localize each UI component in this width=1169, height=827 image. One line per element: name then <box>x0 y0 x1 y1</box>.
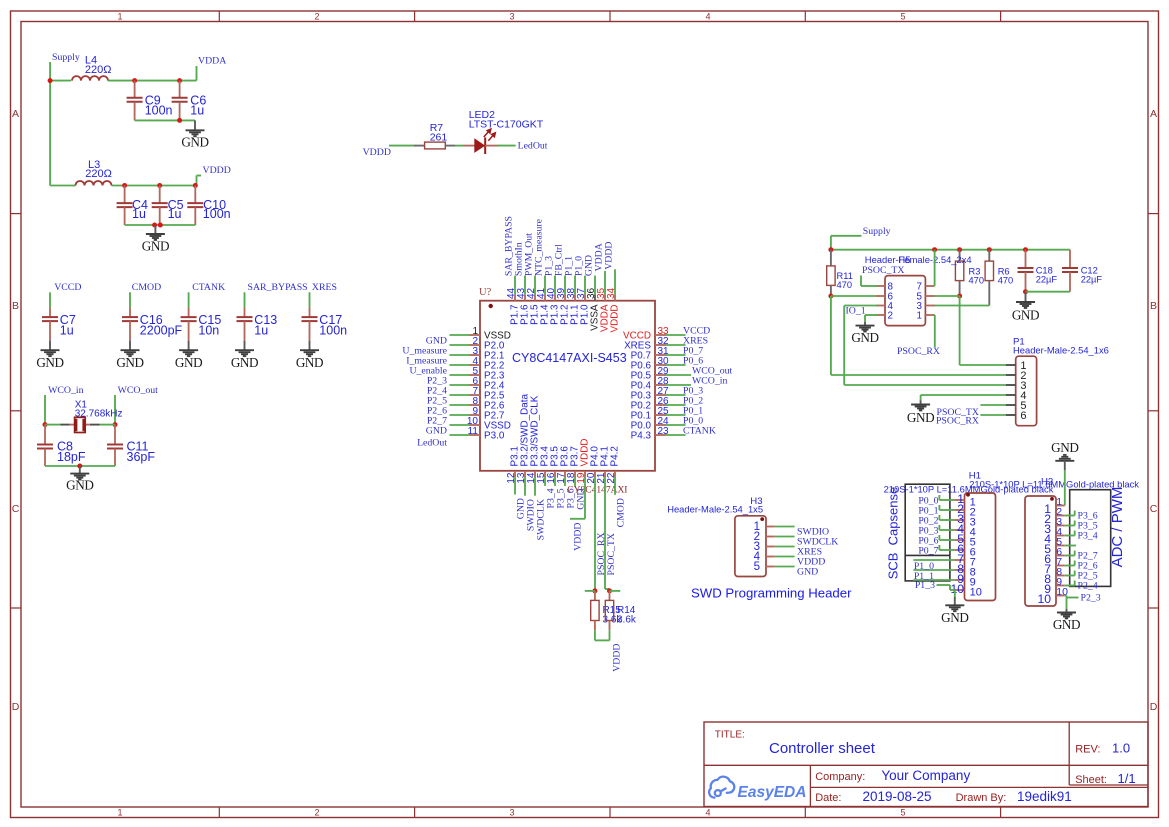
inductor L4 <box>72 76 108 80</box>
ground below H1 <box>954 597 956 605</box>
wire supply bus <box>831 249 1070 251</box>
wire XRES <box>309 292 311 307</box>
svg-text:B: B <box>12 300 19 312</box>
pin 41 (P1.4) top <box>544 295 546 301</box>
junction bottom left <box>152 223 157 228</box>
wire pin 12 <box>514 477 516 495</box>
wire pin 6 <box>450 384 470 386</box>
pin 6 H4 <box>1056 555 1065 557</box>
capacitor C9 <box>134 81 136 98</box>
capacitor C12 <box>1069 250 1071 268</box>
svg-text:Header-Male-2.54_1x6: Header-Male-2.54_1x6 <box>1013 344 1109 355</box>
ground below C5 <box>154 225 156 234</box>
pin 26 (P0.2) right <box>655 404 666 406</box>
wire P1 pin6 <box>980 414 1006 416</box>
pin 38 (P1.1) top <box>574 295 576 301</box>
pin 3 H5 right <box>925 305 934 307</box>
wire pin 19 VDDD <box>584 477 586 519</box>
pin 5 P1 <box>1006 404 1016 406</box>
svg-text:5: 5 <box>754 561 760 573</box>
junction C4 top <box>122 183 127 188</box>
wire VDDD to R7 <box>389 145 414 147</box>
wire pin 11 <box>450 434 470 436</box>
wire H1 pin 2 <box>939 509 954 511</box>
U? pin1 marker <box>489 304 493 308</box>
wire pin 34 <box>614 269 616 294</box>
header H4 body <box>1025 496 1056 606</box>
svg-text:2: 2 <box>888 310 893 321</box>
pin 4 H5 left <box>876 305 885 307</box>
pin 39 (P1.2) top <box>564 295 566 301</box>
svg-text:GND: GND <box>66 478 93 493</box>
svg-text:Controller sheet: Controller sheet <box>769 740 876 757</box>
wire pin 20 PSOC_RX <box>594 477 596 591</box>
header P1 body <box>1016 356 1037 426</box>
wire R11 to P1 pin2 <box>830 296 832 375</box>
wire H4 pin 10 <box>1065 595 1067 597</box>
svg-text:VDDD: VDDD <box>573 523 584 551</box>
junction X1 right <box>113 422 118 427</box>
wire pin 40 <box>554 276 556 295</box>
wire pin 35 <box>604 271 606 295</box>
junction bottom <box>77 464 82 469</box>
junction C6 bottom <box>177 118 182 123</box>
svg-text:VCCD: VCCD <box>54 282 81 293</box>
svg-text:REV:: REV: <box>1075 744 1100 756</box>
wire X1 right <box>100 424 116 426</box>
wire pin 26 <box>666 404 686 406</box>
junction R3 bottom <box>957 294 962 299</box>
svg-text:LedOut: LedOut <box>518 141 548 152</box>
pin 4 (P2.2) left <box>469 364 480 366</box>
junction R11 bottom <box>828 294 833 299</box>
ground below C6 <box>194 120 196 130</box>
svg-text:5: 5 <box>900 12 905 22</box>
svg-text:3: 3 <box>509 12 514 22</box>
wire H3 pin 4 <box>775 556 795 558</box>
wire pin 5 <box>450 374 470 376</box>
svg-text:1u: 1u <box>190 104 204 118</box>
svg-text:220Ω: 220Ω <box>85 168 112 180</box>
wire pin 17 <box>564 477 566 486</box>
wire pin 44 <box>514 276 516 295</box>
svg-text:TITLE:: TITLE: <box>715 730 745 741</box>
capacitor C13 <box>244 307 246 316</box>
wire LED2 to LedOut <box>498 145 516 147</box>
H1 pin1 marker <box>966 493 970 497</box>
pin 6 H1 <box>954 549 964 551</box>
capacitor C4 <box>124 186 126 203</box>
pin 5 H1 <box>954 539 964 541</box>
wire H4 pin 9 <box>1065 585 1075 587</box>
svg-text:GND: GND <box>426 426 447 437</box>
svg-text:P2_3: P2_3 <box>1081 593 1101 604</box>
pin 3 H3 <box>766 546 775 548</box>
ground below C13 <box>244 341 246 351</box>
svg-text:Header-Female-2.54_2x4: Header-Female-2.54_2x4 <box>865 254 972 265</box>
wire pin 22 <box>614 477 616 495</box>
pin 3 (P2.1) left <box>469 354 480 356</box>
wire X1 left <box>45 424 61 426</box>
wire VCCD <box>49 292 51 307</box>
wire pin 33 <box>666 334 686 336</box>
svg-text:WCO_out: WCO_out <box>118 385 159 396</box>
pin 4 H4 <box>1056 535 1065 537</box>
svg-text:GND: GND <box>1053 617 1080 632</box>
wire C18-C12 bottom <box>1026 291 1071 293</box>
pin 4 P1 <box>1006 394 1016 396</box>
pin 4 H3 <box>766 556 775 558</box>
svg-text:Sheet:: Sheet: <box>1075 774 1107 786</box>
pin 2 H3 <box>766 536 775 538</box>
wire WCO_out <box>114 395 116 425</box>
svg-text:CTANK: CTANK <box>683 426 716 437</box>
wire L4 to VDDA <box>108 80 197 82</box>
wire H4 pin 5 <box>1065 545 1076 547</box>
pin 1 H1 <box>954 499 964 501</box>
pin 1 P1 <box>1006 364 1016 366</box>
ground below X1 <box>79 466 81 474</box>
capacitor C8 <box>44 425 46 445</box>
pin 6 P1 <box>1006 414 1016 416</box>
pin 40 (P1.3) top <box>554 295 556 301</box>
wire Supply to L3 <box>50 185 75 187</box>
box ADC/PWM <box>1070 490 1111 587</box>
wire H1 pin 3 <box>939 519 954 521</box>
junction bus R11 <box>828 247 833 252</box>
svg-text:P3.0: P3.0 <box>484 431 505 442</box>
ground P1 pin4 <box>920 401 922 405</box>
wire CMOD <box>129 292 131 307</box>
wire pin 7 <box>450 394 470 396</box>
svg-text:CTANK: CTANK <box>192 282 225 293</box>
wire WCO_in <box>44 395 46 425</box>
svg-text:Date:: Date: <box>815 792 841 804</box>
pin 10 H4 <box>1056 595 1065 597</box>
wire R6 to H5 pin3 <box>933 305 989 307</box>
crystal X1 <box>61 424 70 426</box>
wire pin 14 <box>534 477 536 496</box>
wire R7 to LED2 <box>455 145 463 147</box>
wire pin 31 <box>666 354 686 356</box>
pin 9 H4 <box>1056 585 1065 587</box>
svg-text:1: 1 <box>117 12 122 22</box>
svg-text:22µF: 22µF <box>1036 275 1058 285</box>
svg-text:D: D <box>12 701 20 713</box>
pin 28 (P0.4) right <box>655 384 666 386</box>
svg-text:Drawn By:: Drawn By: <box>956 792 1007 804</box>
svg-text:2: 2 <box>314 808 319 818</box>
svg-text:B: B <box>1150 300 1157 312</box>
svg-text:1.0: 1.0 <box>1112 741 1130 756</box>
junction bus C18 <box>1023 247 1028 252</box>
pin 5 H4 <box>1056 545 1065 547</box>
wire H4 pin 4 <box>1065 535 1075 537</box>
pin 25 (P0.1) right <box>655 414 666 416</box>
wire H3 pin 3 <box>775 546 795 548</box>
pin 9 (P2.7) left <box>469 414 480 416</box>
wire pin 42 <box>534 276 536 295</box>
pin 7 (P2.5) left <box>469 394 480 396</box>
svg-text:EasyEDA: EasyEDA <box>738 784 807 801</box>
svg-text:1u: 1u <box>60 324 74 338</box>
resistor R6 <box>988 250 990 261</box>
junction bottom right <box>158 223 163 228</box>
svg-text:32.768kHz: 32.768kHz <box>75 409 123 420</box>
pin 7 H1 <box>954 559 964 561</box>
pin 2 (P2.0) left <box>469 344 480 346</box>
wire H1 pin10 to GND <box>954 590 956 597</box>
wire pin 32 <box>666 344 686 346</box>
svg-text:P0_7: P0_7 <box>918 545 938 556</box>
ground below C17 <box>309 341 311 351</box>
wire CTANK <box>188 292 190 307</box>
svg-text:P1_3: P1_3 <box>915 580 935 591</box>
wire VDDD stub up <box>196 176 198 186</box>
junction R15 top <box>592 588 597 593</box>
svg-text:P2_4: P2_4 <box>1078 581 1098 592</box>
capacitor C5 <box>159 186 161 203</box>
svg-text:100n: 100n <box>319 324 347 338</box>
capacitor C16 <box>129 307 131 316</box>
pin 1 H5 right <box>925 314 934 316</box>
svg-text:220Ω: 220Ω <box>85 64 112 76</box>
ground below C18 <box>1025 292 1027 302</box>
wire pin 27 <box>666 394 686 396</box>
pin 8 H5 left <box>876 285 885 287</box>
svg-text:36pF: 36pF <box>127 450 156 464</box>
svg-text:10: 10 <box>950 582 964 596</box>
resistor R7 <box>414 145 425 147</box>
pin 1 H4 <box>1056 505 1065 507</box>
pin 16 (P3.5) bottom <box>554 471 556 477</box>
wire H4 pin 6 <box>1065 555 1075 557</box>
svg-text:P4.3: P4.3 <box>631 431 652 442</box>
wire pin 4 <box>450 364 470 366</box>
wire Supply to L4 <box>50 80 71 82</box>
inductor L3 <box>76 181 112 186</box>
wire pin 8 <box>450 404 470 406</box>
wire pin 3 <box>450 354 470 356</box>
header H1 body <box>965 493 996 601</box>
wire R15-R14 bottom U <box>594 630 596 640</box>
pin 30 (P0.6) right <box>655 364 666 366</box>
junction C18 bottom <box>1023 289 1028 294</box>
svg-text:A: A <box>12 108 19 120</box>
svg-text:VDDD: VDDD <box>363 147 391 158</box>
pin 24 (P0.0) right <box>655 424 666 426</box>
pin 1 H3 <box>766 526 775 528</box>
wire C8-C11 bottom <box>45 465 115 467</box>
pin 8 H4 <box>1056 575 1065 577</box>
svg-text:4: 4 <box>705 808 710 818</box>
svg-text:P4.2: P4.2 <box>610 446 621 466</box>
svg-text:VDDD: VDDD <box>604 241 615 269</box>
pin 2 H4 <box>1056 515 1065 517</box>
wire H4 pin 7 <box>1065 565 1075 567</box>
svg-text:CMOD: CMOD <box>132 282 161 293</box>
junction C5 top <box>157 183 162 188</box>
header H5 body <box>885 276 925 326</box>
wire pin 30 <box>666 364 686 366</box>
pin 2 H5 left <box>876 314 885 316</box>
pin 1 (VSSD) left <box>469 334 480 336</box>
H3 pin1 marker <box>760 517 764 521</box>
pin 44 (P1.7) top <box>514 295 516 301</box>
wire pin 43 <box>524 276 526 295</box>
wire pin 39 <box>564 276 566 295</box>
wire H5 pin2 to GND <box>865 314 877 316</box>
pin 5 H3 <box>766 566 775 568</box>
pin 10 H1 <box>954 589 964 591</box>
wire pin 16 <box>554 477 556 486</box>
pin 19 (VDDD) bottom <box>584 471 586 477</box>
wire pin 2 <box>450 344 470 346</box>
wire pin 36 <box>594 276 596 295</box>
junction bus pin7 <box>932 247 937 252</box>
EasyEDA logo <box>709 777 734 798</box>
wire Supply right <box>831 235 862 237</box>
svg-text:470: 470 <box>837 280 853 290</box>
wire H1 pin 1 <box>939 499 954 501</box>
wire VDDA stub up <box>196 66 198 81</box>
wire H1 pin 10 <box>937 584 951 586</box>
ground below C15 <box>188 341 190 351</box>
box SCB/Capsense <box>905 484 950 581</box>
wire pin 10 <box>450 424 470 426</box>
wire pin 37 <box>584 276 586 295</box>
svg-text:GND: GND <box>175 355 202 370</box>
pin 13 (P3.2/SWD_Data) bottom <box>524 471 526 477</box>
svg-text:GND: GND <box>907 410 934 425</box>
wire pin 13 <box>524 477 526 496</box>
svg-text:2200pF: 2200pF <box>140 324 183 338</box>
pin 12 (P3.1) bottom <box>514 471 516 477</box>
pin 8 H1 <box>954 569 964 571</box>
capacitor C6 <box>179 81 181 98</box>
ground below C7 <box>49 341 51 351</box>
svg-text:Your Company: Your Company <box>881 768 970 783</box>
wire R3 to H5 pin5 <box>933 295 959 297</box>
pin 35 (VDDA) top <box>604 295 606 301</box>
svg-text:4: 4 <box>705 12 710 22</box>
svg-text:LedOut: LedOut <box>417 438 447 449</box>
wire pin 15 <box>544 477 546 486</box>
pin 33 (VCCD) right <box>655 334 666 336</box>
pin 21 (P4.1) bottom <box>604 471 606 477</box>
junction bus R3 <box>957 247 962 252</box>
svg-text:LTST-C170GKT: LTST-C170GKT <box>469 119 544 131</box>
wire SAR_BYPASS <box>244 292 246 307</box>
junction X1 left <box>43 422 48 427</box>
svg-text:GND: GND <box>1051 440 1078 455</box>
pin 7 H5 right <box>925 285 934 287</box>
svg-text:CMOD: CMOD <box>616 498 627 527</box>
svg-text:22µF: 22µF <box>1081 275 1103 285</box>
svg-text:IO_1: IO_1 <box>846 306 866 317</box>
svg-text:10n: 10n <box>198 324 219 338</box>
svg-text:1/1: 1/1 <box>1118 771 1136 786</box>
svg-text:GND: GND <box>1012 308 1039 323</box>
wire H5 pin4 IO_1 <box>844 305 877 307</box>
title block frame <box>704 722 1148 807</box>
resistor R3 <box>959 250 961 261</box>
svg-text:1u: 1u <box>132 207 146 221</box>
ground below C16 <box>129 341 131 351</box>
pin 10 (VSSD) left <box>469 424 480 426</box>
pin 9 H1 <box>954 579 964 581</box>
wire pin 21 PSOC_TX <box>604 477 606 589</box>
svg-text:6: 6 <box>1020 410 1026 422</box>
LED LED2 <box>463 145 475 147</box>
H4 pin1 marker <box>1050 497 1054 501</box>
wire H1 pin 6 <box>939 549 954 551</box>
svg-text:3.6k: 3.6k <box>617 615 637 626</box>
wire H1 pin 9 <box>913 579 954 581</box>
pin 29 (P0.5) right <box>655 374 666 376</box>
wire H1 pin 7 <box>913 559 954 561</box>
svg-text:1u: 1u <box>254 324 268 338</box>
pin 31 (P0.7) right <box>655 354 666 356</box>
pin 18 (P3.7) bottom <box>574 471 576 477</box>
capacitor C15 <box>188 307 190 316</box>
svg-text:GND: GND <box>36 355 63 370</box>
capacitor C18 <box>1025 250 1027 268</box>
svg-text:VDDD: VDDD <box>203 165 231 176</box>
junction C10 top <box>193 183 198 188</box>
svg-text:Header-Male-2.54_1x5: Header-Male-2.54_1x5 <box>667 504 763 515</box>
svg-text:10: 10 <box>1037 592 1051 606</box>
pin 34 (VDDD) top <box>614 295 616 301</box>
wire pin 9 <box>450 414 470 416</box>
resistor R15 <box>594 591 596 601</box>
wire pin 29 <box>666 374 691 376</box>
svg-text:XRES: XRES <box>312 282 337 293</box>
header H3 body <box>735 516 766 577</box>
svg-text:PSOC_TX: PSOC_TX <box>862 265 904 276</box>
wire GND to H4 pin1 <box>1064 470 1066 505</box>
wire H3 pin 1 <box>775 526 795 528</box>
pin 27 (P0.3) right <box>655 394 666 396</box>
pin 3 H4 <box>1056 525 1065 527</box>
wire pin 1 <box>450 334 470 336</box>
svg-text:1u: 1u <box>168 207 182 221</box>
svg-text:470: 470 <box>969 275 985 285</box>
pin 15 (P3.4) bottom <box>544 471 546 477</box>
wire P1 pin5 <box>980 404 1006 406</box>
wire H4 pin 8 <box>1065 575 1075 577</box>
capacitor C17 <box>309 307 311 316</box>
wire H1 pin 4 <box>939 529 954 531</box>
svg-text:VDDD: VDDD <box>612 644 623 672</box>
svg-text:U?: U? <box>479 287 492 298</box>
pin 22 (P4.2) bottom <box>614 471 616 477</box>
pin 2 H1 <box>954 509 964 511</box>
wire pin 25 <box>666 414 686 416</box>
svg-text:VDDD: VDDD <box>610 305 621 333</box>
wire P1 pin4 to GND <box>921 394 1006 396</box>
pin 11 (P3.0) left <box>469 434 480 436</box>
svg-text:1: 1 <box>917 310 922 321</box>
svg-text:ADC / PWM: ADC / PWM <box>1109 487 1126 568</box>
pin 23 (P4.3) right <box>655 434 666 436</box>
svg-text:GND: GND <box>851 330 878 345</box>
pin 8 (P2.6) left <box>469 404 480 406</box>
svg-text:GND: GND <box>941 610 968 625</box>
ground H5 pin2 <box>864 322 866 326</box>
svg-text:100n: 100n <box>145 104 173 118</box>
svg-text:261: 261 <box>430 132 448 144</box>
